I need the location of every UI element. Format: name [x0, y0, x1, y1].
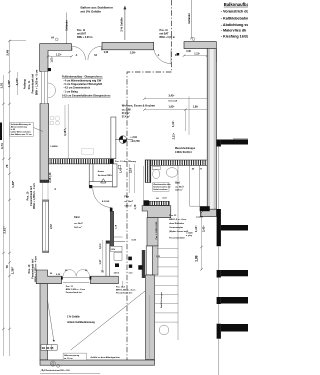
balcony door 2 (single) arc	[154, 50, 171, 64]
svg-text:3,74⁵: 3,74⁵	[15, 78, 19, 86]
svg-text:1,11⁵: 1,11⁵	[171, 120, 175, 127]
svg-text:Pos. 11: Pos. 11	[28, 80, 31, 89]
slope arrow 2% Gefälle (center)	[120, 6, 127, 40]
svg-text:Pos. 11: Pos. 11	[77, 29, 86, 32]
svg-text:14,5 cm Gesamtfußboden Oberges: 14,5 cm Gesamtfußboden Obergeschoss	[62, 94, 111, 97]
terrace inner frame line	[149, 295, 151, 360]
svg-text:ohne Rollladen: ohne Rollladen	[169, 223, 185, 225]
landing corner (black)	[200, 206, 210, 211]
right exterior wall (gray)	[207, 49, 216, 210]
svg-text:1,99: 1,99	[193, 106, 198, 109]
dark door frame strip	[142, 250, 145, 278]
Balkonaufbau spec list (top right, clipped by edge)	[221, 2, 252, 39]
svg-text:BRH 1,5 m - 4 cm: BRH 1,5 m - 4 cm	[169, 218, 186, 221]
svg-text:o. glng: o. glng	[186, 235, 192, 237]
svg-text:3,49: 3,49	[6, 50, 10, 56]
svg-text:Innenmaß: Innenmaß	[169, 101, 178, 103]
svg-text:14,9 m²: 14,9 m²	[124, 205, 132, 208]
neighbour horizontal wall bar 3	[221, 270, 248, 276]
svg-text:3,74: 3,74	[0, 143, 4, 149]
stair landing wall lines	[190, 166, 200, 207]
svg-text:+13,745: +13,745	[130, 139, 140, 143]
door post black right	[177, 53, 180, 55]
kitchen counter faint outline	[82, 148, 94, 154]
svg-text:Aufzug: Aufzug	[23, 79, 27, 89]
svg-text:mit BAT: mit BAT	[77, 33, 87, 36]
dim line stair/flur	[143, 166, 145, 207]
terrace bottom wall (gray)	[40, 360, 155, 365]
svg-text:2 % Gefälle: 2 % Gefälle	[67, 316, 80, 319]
svg-text:1,76: 1,76	[134, 204, 137, 209]
stair side line	[177, 166, 179, 341]
balcony wall middle bar	[102, 42, 154, 49]
drain symbol on bottom wall	[50, 361, 60, 367]
svg-text:Geländer: Geländer	[66, 20, 69, 31]
right wall bottom step	[200, 209, 216, 216]
left window (upper) frame lines	[41, 71, 47, 103]
vertical dim line (room, x65)	[64, 105, 66, 129]
svg-text:1,38⁵: 1,38⁵	[11, 180, 15, 188]
chimney labels	[98, 171, 112, 177]
svg-text:Kondenstrockner auf: Kondenstrockner auf	[153, 186, 170, 189]
washer note box	[153, 183, 171, 192]
svg-text:Höhenversprung: Höhenversprung	[64, 355, 80, 357]
stair circle (newel)	[159, 325, 169, 335]
svg-text:Geländer: Geländer	[188, 13, 191, 24]
svg-text:2,61⁵: 2,61⁵	[2, 226, 6, 234]
svg-text:14StG Sts/18,4: 14StG Sts/18,4	[175, 151, 192, 154]
svg-text:1,13⁵: 1,13⁵	[194, 225, 198, 232]
black squares (electrical)	[115, 263, 119, 267]
room label Flur	[124, 196, 133, 208]
duct square (Bad corner)	[118, 165, 121, 169]
bottom window glass lines	[63, 278, 90, 283]
svg-text:1,63⁵: 1,63⁵	[169, 106, 176, 109]
svg-text:2,42⁵: 2,42⁵	[202, 225, 206, 232]
svg-text:- 1 cm Belag: - 1 cm Belag	[63, 90, 78, 93]
stair core window (white)	[146, 246, 152, 275]
svg-text:BRH + 1,365 m - 5 cm: BRH + 1,365 m - 5 cm	[35, 69, 38, 95]
svg-text:- 5 cm Trägerplatten FBH wtg/G: - 5 cm Trägerplatten FBH wtg/GB	[63, 83, 102, 86]
bottom exterior wall left segment	[36, 270, 61, 284]
leader line to drain point	[48, 300, 55, 342]
svg-text:BRH 1,365 m - 4 cm: BRH 1,365 m - 4 cm	[116, 289, 135, 292]
left chain tick marks	[2, 40, 11, 330]
svg-text:mittels Gefälledämmung: mittels Gefälledämmung	[67, 321, 95, 324]
svg-text:ca. /BW/: ca. /BW/	[122, 109, 131, 111]
room label Kind	[74, 216, 83, 229]
left wall end cap (dark)	[40, 180, 49, 183]
svg-text:3,18⁵: 3,18⁵	[63, 129, 67, 136]
electrical boxes	[111, 246, 122, 260]
small 2-line note (stair)	[186, 232, 193, 238]
svg-text:Fußbodenaufbau - Obergeschoss:: Fußbodenaufbau - Obergeschoss:	[62, 76, 103, 79]
svg-text:76: 76	[5, 265, 9, 269]
Bad bottom wall with door	[144, 197, 170, 207]
vertical dim line at stair right	[201, 212, 203, 270]
svg-text:1,13⁵: 1,13⁵	[56, 53, 62, 56]
left window Pos.10 (white bar)	[43, 200, 49, 253]
svg-text:1,38⁵: 1,38⁵	[7, 79, 11, 87]
svg-text:1,51: 1,51	[0, 82, 4, 88]
room label Bad	[175, 182, 184, 192]
svg-text:2 % Gefälle: 2 % Gefälle	[120, 17, 124, 32]
stair core wall band upper	[147, 218, 158, 246]
hoehenversprung note box	[63, 353, 86, 360]
stair treads	[155, 249, 178, 323]
bottom exterior wall right segment	[91, 276, 119, 284]
left dimension chain lines	[4, 40, 27, 356]
svg-text:1,80/90: 1,80/90	[50, 146, 58, 148]
svg-text:Sa./oben/ RRG: Sa./oben/ RRG	[98, 175, 112, 177]
height reference symbol	[115, 136, 140, 144]
section line A-A (dash-dot)	[127, 0, 172, 360]
svg-text:- Malervlies dk: - Malervlies dk	[221, 29, 247, 33]
left exterior wall upper (gray)	[40, 104, 49, 183]
svg-text:- 4 cm Wärmedämmung wtg GW: - 4 cm Wärmedämmung wtg GW	[63, 79, 102, 82]
left window casement arcs	[48, 83, 56, 98]
svg-text:2,38⁵|,36: 2,38⁵|,36	[49, 172, 52, 183]
bottom window posts	[61, 276, 63, 279]
svg-text:2,14: 2,14	[129, 168, 132, 173]
stair core wall band lower	[146, 275, 155, 360]
window note Pos.11 (bottom left)	[66, 286, 85, 294]
svg-text:Ornamentglas: Ornamentglas	[169, 226, 184, 229]
bottom annotation line	[40, 372, 100, 374]
wall projection lines at left opening	[43, 183, 49, 201]
svg-text:14,9 m²: 14,9 m²	[175, 189, 183, 192]
svg-text:Pos. 1-1 über Öffnung: Pos. 1-1 über Öffnung	[115, 160, 137, 163]
svg-text:1,41: 1,41	[120, 168, 123, 173]
svg-text:- Kaltklebebahn: - Kaltklebebahn	[221, 16, 248, 20]
dim line below right corner wall	[184, 55, 207, 57]
svg-text:- Kiesfang 16/32: - Kiesfang 16/32	[221, 34, 248, 38]
svg-text:Pos. 18,1: Pos. 18,1	[116, 287, 126, 289]
room label Wohnen Essen Kochen	[122, 103, 156, 118]
svg-text:Gefälle zu dem Ablaufgarnitur: Gefälle zu dem Ablaufgarnitur	[91, 356, 121, 359]
svg-text:14,9 m²: 14,9 m²	[74, 226, 82, 229]
svg-text:BRH + 1,365 m - 4 cm: BRH + 1,365 m - 4 cm	[33, 183, 36, 209]
balcony door 1 (double french door) arcs	[72, 46, 102, 60]
label Massivholztreppe	[175, 147, 196, 154]
dim line below left balcony wall	[48, 55, 72, 57]
svg-text:1,47: 1,47	[99, 259, 102, 264]
svg-text:0,36: 0,36	[186, 51, 191, 53]
svg-text:Pos. 11: Pos. 11	[66, 286, 74, 288]
svg-text:Fensterbank tief: Fensterbank tief	[32, 74, 35, 93]
svg-text:Kamin: Kamin	[98, 171, 105, 173]
door posts below chimney	[89, 185, 92, 188]
svg-text:Fensterbank frei: Fensterbank frei	[116, 292, 133, 295]
svg-text:Stahl-Holztreppe: Stahl-Holztreppe	[160, 291, 163, 308]
window note Pos.18 (bottom right)	[116, 287, 135, 295]
svg-text:Wohnen, Essen & Kochen: Wohnen, Essen & Kochen	[122, 103, 156, 107]
svg-text:mit 2% Gefälle: mit 2% Gefälle	[81, 10, 102, 14]
interior wall (upper, x111)	[111, 117, 116, 159]
svg-text:1,01⁵: 1,01⁵	[50, 56, 53, 63]
railing line Geländer (right)	[188, 0, 193, 39]
svg-text:mit BAT: mit BAT	[160, 33, 170, 36]
neighbour wall vertical strip (black segments)	[217, 140, 221, 339]
text Pos.11 mit BAT left	[77, 29, 92, 39]
svg-text:30 30 15: 30 30 15	[42, 346, 54, 350]
svg-text:BRH + 0,00 m: BRH + 0,00 m	[160, 36, 175, 39]
svg-text:1,38⁵: 1,38⁵	[10, 266, 14, 274]
terrace left wall (gray)	[40, 284, 48, 360]
svg-text:- 4,5 cm Zementestrich: - 4,5 cm Zementestrich	[63, 87, 91, 90]
svg-text:Flur: Flur	[124, 196, 129, 199]
small angle symbol	[41, 369, 44, 371]
svg-text:Pos. 21: Pos. 21	[169, 215, 177, 217]
Pos.21 window note block	[169, 215, 188, 239]
text Pos.11 mit BAT right	[160, 29, 175, 39]
svg-text:Massivholztreppe: Massivholztreppe	[175, 147, 196, 150]
neighbour horizontal wall bar 2	[221, 225, 248, 231]
balcony wall left L-corner	[40, 44, 72, 72]
slope diagonal line	[71, 291, 146, 350]
svg-text:2,11⁵: 2,11⁵	[172, 132, 176, 139]
svg-text:2,67: 2,67	[50, 224, 53, 229]
chimney warning triangle	[101, 179, 106, 183]
flur door arc	[93, 188, 112, 207]
neighbour horizontal wall bar 1	[233, 138, 248, 140]
door post (black) at left window	[48, 68, 51, 71]
sliver next to window	[153, 246, 159, 275]
vertical dim line (room, x68.2)	[67, 104, 69, 159]
Fussbodenaufbau spec block	[62, 76, 111, 98]
neighbour wall window lines	[218, 147, 220, 375]
neighbour horizontal wall bar 4	[221, 297, 248, 304]
svg-text:Fensterbank frei: Fensterbank frei	[66, 291, 83, 294]
svg-text:+ 2,91: + 2,91	[130, 136, 137, 139]
svg-text:3,43⁵: 3,43⁵	[169, 94, 176, 97]
left edge neighbour wall mark	[0, 123, 2, 141]
svg-text:76: 76	[5, 164, 9, 168]
svg-text:Bad: Bad	[175, 182, 180, 185]
WC fixture	[152, 166, 160, 178]
svg-text:ca. 10 cm: ca. 10 cm	[64, 358, 73, 360]
svg-text:(Mydas Camst auß): (Mydas Camst auß)	[169, 230, 188, 233]
svg-text:BRH + 0,00 m: BRH + 0,00 m	[77, 36, 92, 39]
svg-text:2,36⁵: 2,36⁵	[130, 52, 136, 55]
svg-text:Fensterbank/14: Fensterbank/14	[169, 237, 185, 240]
svg-text:1,99: 1,99	[194, 255, 198, 262]
downpipe tick circle right	[192, 38, 195, 41]
svg-text:den Stäben max. 12 cm: den Stäben max. 12 cm	[11, 133, 32, 136]
svg-text:ca. /8m²/: ca. /8m²/	[74, 222, 83, 225]
lavatory fixtures (faint)	[50, 116, 60, 125]
slope text	[67, 316, 95, 324]
svg-text:ca. /8m²/: ca. /8m²/	[175, 185, 184, 188]
svg-text:B 2,01/8: B 2,01/8	[102, 201, 109, 203]
label: Balkon aus Stahlbeton	[81, 6, 114, 14]
stair core gray stepped mass	[142, 206, 171, 218]
railing note leader box	[10, 122, 43, 136]
railing line Geländer (left)	[66, 13, 69, 44]
svg-text:ca. /8m²/: ca. /8m²/	[124, 200, 133, 203]
washbasin fixture	[166, 168, 177, 178]
chimney block (Kamin)	[89, 164, 117, 187]
svg-text:- Voranstrich dü: - Voranstrich dü	[221, 10, 248, 14]
svg-text:BRH 1,365 m - 4 cm: BRH 1,365 m - 4 cm	[66, 288, 85, 291]
flur wall lines	[129, 164, 134, 193]
svg-text:1,13⁵: 1,13⁵	[194, 52, 200, 55]
downpipe tick circle left	[55, 38, 58, 41]
svg-text:- Abdichtung sw: - Abdichtung sw	[221, 23, 248, 27]
bottom window casement arcs	[63, 270, 90, 277]
svg-text:Balkonaufbau: Balkonaufbau	[224, 2, 248, 7]
svg-text:Pos. 11: Pos. 11	[160, 29, 169, 32]
label 30 30 15	[41, 345, 57, 351]
balcony wall right corner (top-right L)	[184, 42, 216, 62]
svg-text:Sockel montieren: Sockel montieren	[153, 188, 167, 191]
svg-text:Kind: Kind	[74, 216, 80, 219]
hatched wall A (left section y159-164)	[49, 159, 114, 164]
svg-text:=+5,88: =+5,88	[196, 217, 204, 219]
dim line 3,43-5 (horizontal, kitchen)	[145, 97, 211, 136]
svg-text:Pos. 1-1 BRH+1,365: Pos. 1-1 BRH+1,365	[156, 222, 158, 240]
hatched wall B (right L-section)	[145, 160, 210, 183]
svg-text:4,11⁵: 4,11⁵	[99, 242, 102, 249]
svg-text:14 1/2: 14 1/2	[114, 272, 120, 275]
svg-text:8,5 Rechteckrinne/150 x 100: 8,5 Rechteckrinne/150 x 100	[42, 369, 70, 372]
interior wall lower (x104.5)	[106, 241, 110, 284]
svg-text:0,36: 0,36	[104, 52, 109, 54]
neighbour horizontal wall bar 5	[221, 324, 248, 332]
